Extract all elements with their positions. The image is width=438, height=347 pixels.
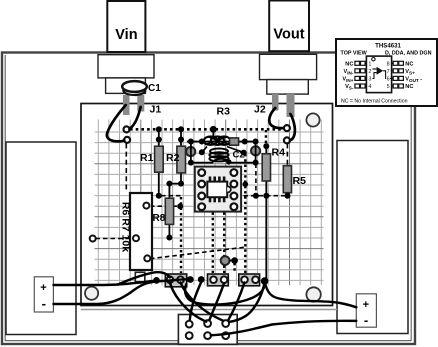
svg-text:VIN+: VIN+ [342,77,353,83]
junction R8 top [166,181,172,187]
wire: dashed vertical from R3 net [255,164,257,196]
svg-text:J1: J1 [150,104,162,116]
svg-text:J2: J2 [254,104,266,116]
junction node dashed bus [253,193,259,199]
wire: dotted trace to R4 top [265,130,267,146]
mounting hole top-right [306,113,319,126]
svg-text:NC = No Internal Connection: NC = No Internal Connection [341,98,408,104]
svg-text:R3: R3 [217,106,231,118]
terminal block TB1 [165,274,186,287]
enclosure right wall [337,141,408,334]
svg-text:VIN-: VIN- [344,69,354,75]
THS4631 pinout diagram [336,39,437,106]
wire TB1 left to header [170,283,206,322]
wire across to TB1 [118,272,170,284]
mounting hole bottom-right [306,287,320,301]
svg-text:NC: NC [405,62,413,68]
junction C2 left [199,149,205,155]
junction on bus at R3 [210,126,217,133]
svg-text:VS+: VS+ [405,69,415,75]
svg-text:7: 7 [387,69,390,75]
wire R3 left vertical [190,142,192,163]
svg-text:-: - [42,296,46,311]
junction R1 on bus [156,126,162,132]
junction row ends [188,160,194,166]
wire TB2 left to header [190,282,201,320]
Vin BNC connector [98,1,154,93]
wire: dashed R1 bottom to node [161,195,181,197]
wire via to junction [230,260,235,262]
junction R4 top [263,143,269,149]
wire R2 to R8 [169,183,181,185]
svg-text:R1: R1 [140,152,154,164]
wire: dotted trace J1 to J2 [130,128,282,131]
wire TB2 right to header [210,283,225,320]
svg-text:8: 8 [387,62,390,68]
svg-text:VOUT -: VOUT - [405,77,422,83]
op-amp U1 socket [195,167,241,212]
wire: dotted trace to TB2 right [223,213,225,274]
wire diagonal to C2 right [227,147,244,153]
connector J2 pads [254,104,290,144]
wire C1 right leg to J1 pad 1 [130,107,141,129]
wire: dashed trace to left pad [96,238,133,240]
junction R2 top [178,137,184,143]
via pad right of R3 [251,146,260,155]
svg-text:5: 5 [387,84,390,90]
terminal block TB3 [239,274,260,286]
svg-text:Vout: Vout [273,27,304,43]
svg-text:+: + [40,282,46,294]
resistor R4 [262,146,285,196]
op-amp U1 THS4631 chip [207,177,231,203]
wire TB3 node to header [229,282,264,322]
junction R8 bottom [166,235,172,241]
wire Vout pin to J2 pad 1 [269,108,283,128]
resistor R5 [283,166,306,196]
Vout connector pins [272,94,295,117]
wire: dotted trace to TB3 [244,154,246,273]
junction R1 top [156,137,162,143]
capacitor C1 [122,81,161,115]
wire: dashed J2 pad2 down to R5 [286,143,288,165]
wire: dashed pot wiper trace [150,205,180,207]
svg-text:R5: R5 [293,175,307,187]
junction C2 right [241,150,247,156]
wire Vout pin to J2 pad 2 [290,114,295,140]
wire arc TB1 to TB3 [185,282,265,305]
svg-text:NC: NC [345,62,353,68]
svg-text:3: 3 [368,77,371,83]
junction R4 bottom [263,193,269,199]
resistor R8 [153,184,174,238]
svg-text:R8: R8 [153,213,166,224]
wire: dashed diagonal trace [150,247,247,259]
svg-text:+: + [363,299,369,311]
wire: dashed socket pin 5 stub [238,183,246,185]
svg-text:VS-: VS- [345,84,354,90]
via pad left of R3 [186,147,195,156]
wire C1 left leg to J1 pad 2 [107,105,126,141]
svg-text:6: 6 [387,77,390,83]
wire: solid trace R4 net to TB3 node [265,196,267,281]
board bottom shadow line [81,309,337,311]
wire TB1 right to header [181,283,224,321]
pad square below R6/R7 [135,272,145,281]
junction R2 bottom [178,181,184,187]
junction R2 on bus [178,126,184,132]
power terminal left (+/-) [34,277,53,312]
svg-text:R2: R2 [166,152,180,164]
capacitor C2 [209,149,244,162]
junction near via [231,257,238,264]
junction left of TB1 [153,277,160,284]
junction R1 bottom [156,193,162,199]
op-amp symbol in legend [372,58,375,61]
wire - supply left [54,279,191,304]
terminal block TB2 [208,274,229,286]
perfboard grid [95,120,324,286]
enclosure outer frame [2,53,415,345]
svg-text:NC: NC [405,84,413,90]
junction right of TB1 [187,276,194,283]
junction R5 bottom [285,193,291,199]
wire header to - supply right [211,321,356,335]
junctions R3 row [188,139,194,145]
resistor R1 [140,129,163,196]
resistor R2 [166,129,186,183]
wire: dotted trace to TB1 [180,197,182,273]
wire R3 right vertical [255,142,257,163]
junction left of TB2 [198,276,205,283]
enclosure inner frame [4,55,6,341]
output header connector [178,315,237,345]
svg-text:1: 1 [368,62,371,68]
wire TB3 left to header [228,283,244,320]
wire: dashed socket to R4/R5 bottoms [236,195,288,197]
wire: dashed J1 pad2 down to R6/R7 block [125,143,127,192]
svg-text:TOP VIEW: TOP VIEW [341,50,368,56]
svg-text:-: - [364,313,368,328]
svg-text:R6 R7 10k: R6 R7 10k [120,202,132,252]
wire + supply left [54,280,158,285]
svg-text:R4: R4 [272,147,286,159]
resistor block R6 R7 10k [120,193,152,270]
resistor R3 leads [187,141,258,143]
wire: dotted trace to TB2 left [212,213,214,274]
wire diagonal to C2 left [202,147,207,153]
mounting hole bottom-left [85,287,98,300]
svg-text:4: 4 [368,84,371,90]
wire TB3 to + supply right [265,282,357,308]
PCB board outline [81,104,333,306]
resistor R3 coil body [204,106,239,146]
Vout BNC connector [260,1,317,95]
via pad near TB3 [221,256,230,265]
junction wiper node [177,203,183,209]
pad: left feed-through [90,236,96,242]
wire: dotted via stub [233,263,235,273]
wire node row above socket [191,159,256,163]
enclosure left wall [6,142,76,335]
svg-text:Vin: Vin [115,27,137,43]
wire stub from bus to R3 [212,129,214,136]
power terminal right (+/-) [356,294,376,328]
svg-text:C1: C1 [148,83,161,94]
junction right of TB3 [261,277,269,285]
connector J1 pads [124,104,162,143]
svg-text:THS4631: THS4631 [375,43,401,50]
svg-text:2: 2 [368,69,371,75]
svg-text:C2: C2 [233,150,245,161]
